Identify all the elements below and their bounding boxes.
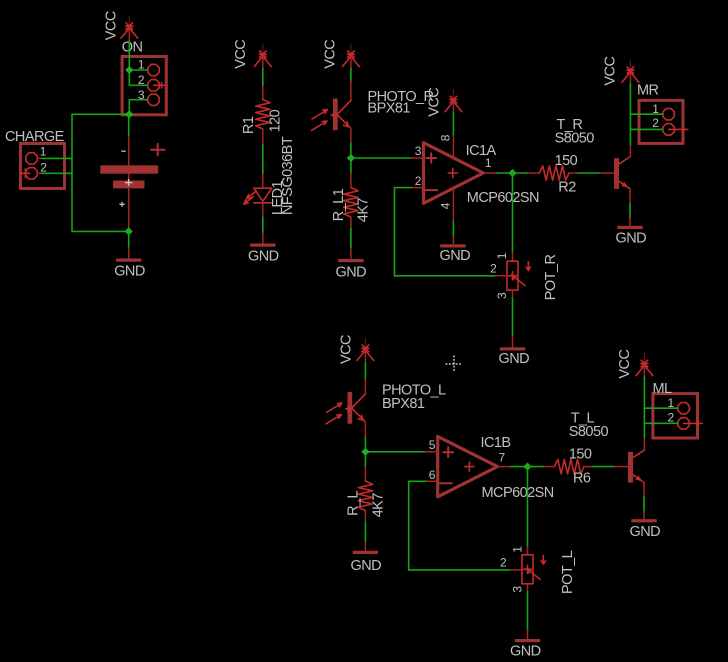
wire VCC to pin 8	[452, 113, 454, 136]
svg-text:R1: R1	[241, 116, 257, 134]
wire R_L to ground	[364, 522, 366, 542]
wire VCC to ML pins and T_L collector	[643, 377, 645, 438]
pin stub POT_R 3	[512, 290, 514, 298]
svg-text:2: 2	[500, 555, 507, 569]
svg-text:GND: GND	[351, 558, 382, 574]
wire POT_L to ground	[527, 592, 529, 630]
wire PHOTO_L emitter to node L	[365, 437, 425, 467]
wire battery top	[128, 114, 130, 136]
svg-text:VCC: VCC	[603, 57, 619, 86]
svg-text:VCC: VCC	[427, 88, 443, 117]
pin stub CHARGE 2	[38, 172, 42, 174]
IC1A minus input mark	[426, 189, 438, 191]
svg-text:GND: GND	[440, 248, 471, 264]
IC1B origin cross	[465, 462, 474, 471]
power symbol VCC (IC1A pin 8)	[445, 89, 462, 115]
ground GND (T_R)	[617, 226, 642, 229]
wire VCC to MR pins and T_R collector	[629, 84, 631, 144]
pin stub R_L1 bottom	[350, 217, 352, 229]
battery plus marker	[151, 144, 165, 156]
svg-text:1: 1	[495, 252, 509, 259]
phototransistor PHOTO_L BPX81	[326, 392, 365, 424]
ON pad 3	[148, 94, 159, 105]
wire IC1B output to node	[511, 466, 528, 468]
svg-text:4K7: 4K7	[356, 198, 372, 223]
svg-text:4: 4	[439, 202, 453, 209]
pin stub PHOTO_R emitter	[350, 129, 352, 144]
svg-text:VCC: VCC	[103, 11, 119, 40]
svg-text:6: 6	[429, 468, 436, 482]
pin stub R6 left	[544, 466, 555, 468]
junction node battery-	[125, 227, 133, 235]
ON pin 2 origin cross	[154, 83, 165, 88]
wire VCC to PHOTO_R collector	[350, 69, 352, 82]
pin stub T_L collector	[643, 438, 645, 450]
connector MR (2-pin)	[639, 100, 683, 143]
wire R6 to T_L base	[593, 466, 615, 468]
pin stub R_L ground	[364, 542, 366, 553]
resistor R_L	[358, 481, 372, 511]
svg-text:ML: ML	[653, 381, 673, 397]
junction node IC1A output	[508, 169, 516, 177]
wire R_L1 to ground	[350, 229, 352, 249]
CHARGE pad 2	[26, 168, 37, 179]
pin 7 stub IC1B output	[498, 466, 511, 468]
svg-text:VCC: VCC	[617, 350, 633, 379]
svg-text:IC1A: IC1A	[466, 143, 497, 159]
wire node down to POT_R	[512, 173, 514, 253]
ground GND (R_L1)	[338, 259, 363, 262]
pin stub PHOTO_L collector	[364, 379, 366, 394]
svg-text:S8050: S8050	[555, 130, 595, 146]
svg-text:GND: GND	[336, 265, 367, 281]
ground GND (IC1A)	[440, 244, 465, 247]
transistor T_R S8050	[614, 157, 630, 190]
IC1A plus input mark	[426, 153, 436, 163]
pin stub T_R base	[601, 172, 614, 174]
battery plus label	[119, 202, 124, 207]
svg-text:IC1B: IC1B	[481, 435, 511, 451]
pin stub LED ground	[262, 233, 264, 243]
wire CHARGE loop to battery net	[42, 114, 130, 231]
power symbol VCC (PHOTO_R column)	[343, 44, 360, 69]
svg-text:2: 2	[415, 174, 422, 188]
junction node L (divider)	[361, 448, 369, 456]
svg-text:3: 3	[495, 292, 509, 299]
svg-text:NFSG036BT: NFSG036BT	[280, 136, 296, 215]
power symbol VCC (R1 column)	[254, 44, 271, 69]
svg-text:2: 2	[40, 160, 47, 174]
ON pad 2	[148, 80, 159, 91]
resistor R2	[540, 166, 570, 180]
pin 3 stub IC1A	[411, 157, 423, 159]
IC1B minus input mark	[440, 482, 452, 484]
pin 4 stub IC1A	[452, 188, 454, 221]
svg-text:BPX81: BPX81	[382, 396, 425, 412]
wire VCC to ON pins 1-2	[128, 41, 130, 85]
ML pad 2	[678, 418, 689, 429]
wire MR pin 1	[630, 113, 662, 115]
op-amp IC1B MCP602SN	[438, 436, 498, 496]
wire R1 to LED1	[262, 145, 264, 175]
sheet origin crosshair	[446, 356, 463, 373]
wire node down to POT_L	[527, 467, 529, 547]
pin stub R2 left	[529, 172, 540, 174]
wire LED1 to ground	[262, 217, 264, 233]
IC1A origin cross	[448, 168, 457, 177]
ground GND (T_L)	[631, 519, 656, 522]
pin stub R_L bottom	[364, 511, 366, 522]
wire IC1A output to node	[497, 172, 513, 174]
svg-text:R_L1: R_L1	[331, 188, 347, 221]
pin 8 stub IC1A	[452, 136, 454, 159]
wire ON pin 3	[129, 100, 147, 115]
pin stub CHARGE 1	[38, 157, 42, 159]
junction node R (divider)	[347, 154, 355, 162]
svg-text:GND: GND	[114, 263, 145, 279]
pin stub R6 right	[584, 466, 593, 468]
svg-text:VCC: VCC	[323, 40, 339, 69]
ground GND (battery)	[116, 259, 141, 262]
junction node battery+ below ON	[125, 110, 133, 118]
battery B1 pin line	[128, 136, 130, 231]
CHARGE pad 1	[26, 153, 37, 164]
svg-text:GND: GND	[616, 231, 647, 247]
diode LED1	[244, 188, 272, 204]
wire pin 4 to ground	[452, 221, 454, 236]
svg-text:150: 150	[555, 153, 578, 169]
wire PHOTO_R emitter to node R	[351, 143, 411, 173]
svg-text:4K7: 4K7	[370, 493, 386, 518]
pin stub T_R ground	[629, 218, 631, 226]
svg-text:S8050: S8050	[569, 424, 609, 440]
pin stub T_L base	[615, 466, 628, 468]
battery origin cross	[125, 179, 132, 186]
pin 5 stub IC1B	[426, 451, 438, 453]
svg-text:MCP602SN: MCP602SN	[482, 485, 554, 501]
power symbol VCC (battery/ON column)	[121, 16, 138, 42]
connector CHARGE (2-pin)	[21, 144, 65, 189]
svg-text:2: 2	[652, 116, 659, 130]
svg-text:3: 3	[415, 144, 422, 158]
power symbol VCC (PHOTO_L column)	[357, 338, 374, 364]
wire R2 to T_R base	[578, 172, 601, 174]
wire ON pin 2	[129, 84, 147, 86]
svg-text:POT_R: POT_R	[543, 255, 559, 301]
MR pin 2 origin cross	[669, 127, 688, 133]
pin stub R_L top	[364, 467, 366, 481]
wire VCC to PHOTO_L collector	[364, 363, 366, 380]
wire ML pin 2	[644, 422, 677, 424]
svg-text:MCP602SN: MCP602SN	[467, 190, 539, 206]
svg-text:1: 1	[511, 546, 525, 553]
pin stub T_R collector	[629, 144, 631, 156]
svg-text:POT_L: POT_L	[560, 550, 576, 594]
pin stub POT_R 1	[512, 253, 514, 261]
ground GND (POT_R)	[500, 347, 525, 350]
power symbol VCC (MR column)	[622, 60, 639, 86]
pin 2 stub IC1A	[411, 187, 423, 189]
pin stub R1 top	[262, 86, 264, 100]
svg-text:VCC: VCC	[338, 335, 354, 364]
svg-text:3: 3	[511, 586, 525, 593]
junction node IC1B output	[523, 463, 531, 471]
svg-text:2: 2	[490, 261, 497, 275]
svg-text:120: 120	[268, 109, 284, 132]
wire ON pin 1	[129, 69, 147, 71]
svg-text:VCC: VCC	[233, 40, 249, 69]
svg-text:BPX81: BPX81	[368, 101, 411, 117]
pin stub LED1 anode	[262, 174, 264, 188]
connector ML (2-pin)	[653, 394, 698, 438]
svg-text:GND: GND	[499, 351, 530, 367]
svg-text:MR: MR	[637, 82, 659, 98]
svg-text:1: 1	[485, 156, 492, 170]
resistor R6	[555, 459, 585, 473]
pin stub POT_R 2	[496, 275, 508, 277]
wire feedback IC1A pin2 to POT_R wiper	[395, 188, 496, 276]
svg-text:CHARGE: CHARGE	[5, 129, 65, 145]
battery plate long	[100, 165, 158, 173]
svg-text:150: 150	[569, 446, 592, 462]
pin stub R1 bottom	[262, 129, 264, 145]
pin stub LED1 cathode	[262, 203, 264, 217]
pin stub T_R emitter	[629, 189, 631, 204]
svg-text:5: 5	[429, 438, 436, 452]
ML pin 2 origin cross	[684, 421, 703, 427]
ground GND (POT_L)	[515, 639, 540, 642]
ground GND (R_L)	[353, 551, 378, 554]
phototransistor PHOTO_R BPX81	[312, 99, 351, 131]
ON pad 1	[148, 64, 159, 75]
wire POT_R to ground	[512, 298, 514, 336]
potentiometer POT_R	[507, 261, 531, 290]
svg-text:8: 8	[439, 134, 453, 141]
MR pad 1	[663, 109, 674, 120]
IC1B plus input mark	[443, 447, 453, 457]
pin stub R2 right	[569, 172, 578, 174]
pin stub POT_L ground	[527, 630, 529, 641]
pin stub IC1A ground	[452, 237, 454, 244]
pin stub POT_L 2	[511, 569, 523, 571]
svg-text:GND: GND	[248, 249, 279, 265]
ML pad 1	[678, 403, 689, 414]
op-amp IC1A MCP602SN	[424, 143, 484, 204]
pin stub POT_R ground	[512, 336, 514, 347]
pin stub T_L ground	[643, 511, 645, 519]
pin stub PHOTO_R collector	[350, 81, 352, 100]
power symbol VCC (ML column)	[636, 353, 653, 379]
ground GND (LED1)	[250, 244, 275, 247]
wire MR pin 2	[630, 128, 662, 130]
pin stub battery- ground	[128, 248, 130, 259]
svg-text:ON: ON	[122, 40, 143, 56]
svg-text:1: 1	[40, 144, 47, 158]
wire VCC to R1	[262, 69, 264, 87]
svg-text:R_L: R_L	[346, 490, 362, 515]
pin 6 stub IC1B	[426, 480, 438, 482]
junction node VCC at ON pin1	[125, 66, 133, 74]
svg-text:GND: GND	[630, 524, 661, 540]
resistor R_L1	[344, 188, 358, 218]
transistor T_L S8050	[628, 450, 644, 483]
pin stub T_L emitter	[643, 482, 645, 497]
connector ON (3-pin header)	[122, 57, 166, 115]
pin stub R_L1 ground	[350, 249, 352, 260]
pin stub POT_L 1	[527, 547, 529, 555]
svg-text:R6: R6	[573, 471, 591, 487]
CHARGE pin 2 origin cross	[21, 169, 30, 178]
wire feedback IC1B pin6 to POT_L wiper	[409, 481, 511, 570]
pin stub R_L1 top	[350, 173, 352, 187]
wire node to R6	[528, 466, 544, 468]
pin stub POT_L 3	[527, 584, 529, 592]
battery plate short	[113, 181, 145, 189]
potentiometer POT_L	[522, 555, 546, 584]
MR pad 2	[663, 124, 674, 135]
wire node to R2	[513, 172, 529, 174]
pin stub PHOTO_L emitter	[364, 422, 366, 437]
svg-text:GND: GND	[510, 644, 541, 660]
wire T_L emitter to ground	[643, 497, 645, 512]
battery minus label	[121, 150, 125, 152]
wire ML pin 1	[644, 407, 677, 409]
pin 1 stub IC1A output	[483, 172, 496, 174]
wire T_R emitter to ground	[629, 203, 631, 218]
wire battery- to ground	[128, 231, 130, 247]
svg-text:R2: R2	[558, 180, 576, 196]
svg-text:7: 7	[499, 451, 506, 465]
resistor R1	[256, 100, 270, 130]
